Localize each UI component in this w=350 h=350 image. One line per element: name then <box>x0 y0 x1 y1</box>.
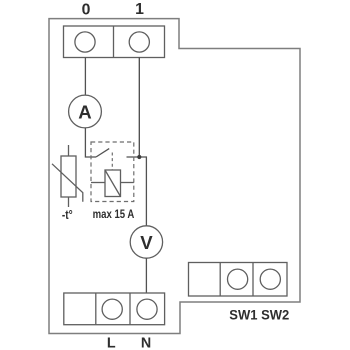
terminal 0 clamp circle <box>75 32 95 52</box>
svg-text:N: N <box>141 335 151 350</box>
wire voltmeter to terminal N <box>145 258 147 293</box>
wire terminal1 to junction <box>138 58 140 158</box>
terminal block bottom (L/N) <box>64 293 165 325</box>
svg-text:V: V <box>140 232 153 253</box>
terminal 1 clamp circle <box>129 32 149 52</box>
wire switch contact to voltmeter <box>127 157 147 226</box>
svg-text:L: L <box>107 335 116 350</box>
thermistor bottom lead <box>68 197 70 207</box>
switch blade (relay contact) <box>96 149 109 157</box>
terminal L clamp circle <box>102 299 122 319</box>
svg-text:max 15 A: max 15 A <box>93 207 135 221</box>
junction dot <box>137 155 141 159</box>
svg-text:A: A <box>78 101 91 122</box>
svg-text:-t°: -t° <box>62 207 73 222</box>
relay coil left lead <box>91 182 105 184</box>
thermistor RT1 body <box>61 156 76 197</box>
thermistor diagonal stroke with foot <box>52 164 83 202</box>
voltmeter U2 (V) <box>130 226 162 258</box>
relay mechanical link (dashed) <box>111 153 113 171</box>
svg-text:0: 0 <box>82 1 91 18</box>
terminal block SW (right) <box>189 263 288 297</box>
wire ammeter to switch contact <box>85 128 96 157</box>
wire terminal0 to ammeter <box>84 58 86 96</box>
terminal N clamp circle <box>137 299 157 319</box>
relay coil right lead <box>121 182 134 184</box>
terminal SW2 clamp circle <box>260 269 280 289</box>
svg-text:1: 1 <box>135 1 144 18</box>
relay coil diagonal <box>105 170 121 197</box>
terminal SW1 clamp circle <box>228 269 248 289</box>
relay dashed enclosure box <box>91 142 134 202</box>
svg-text:SW1 SW2: SW1 SW2 <box>229 307 289 323</box>
enclosure outline <box>49 19 300 334</box>
thermistor top lead <box>68 145 70 156</box>
ammeter U1 (A) <box>69 95 102 128</box>
relay coil K1 body <box>105 170 121 197</box>
terminal block top (0/1) <box>64 26 165 58</box>
